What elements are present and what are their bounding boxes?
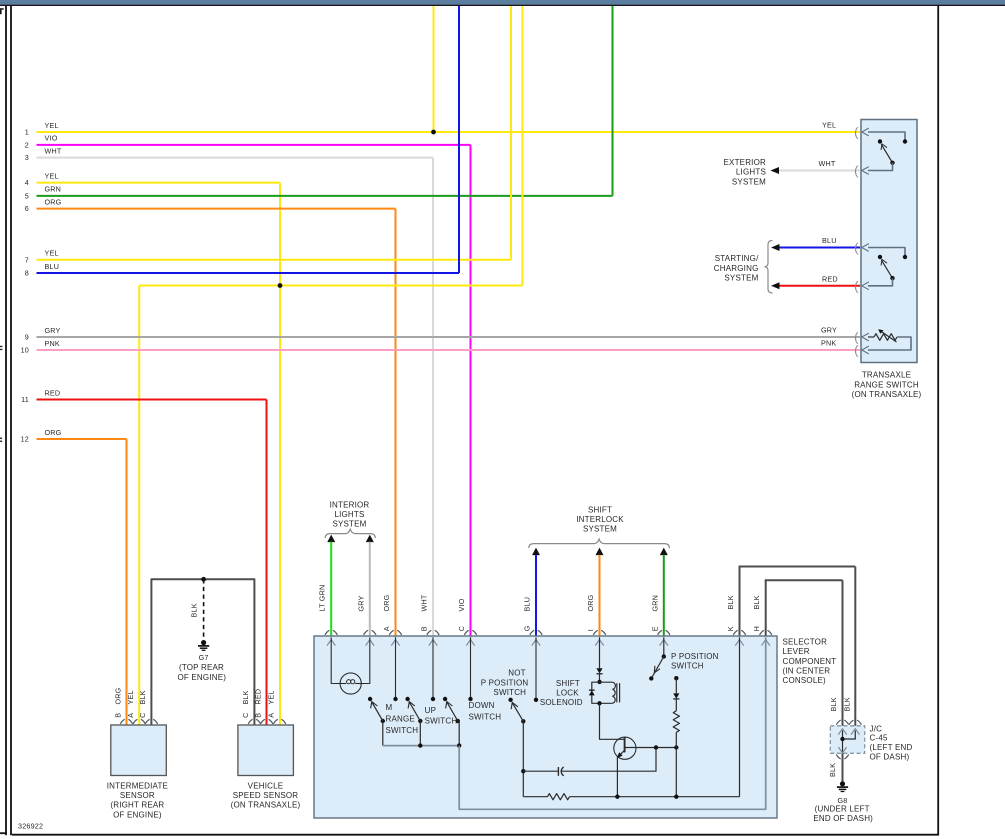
svg-text:LT GRN: LT GRN <box>318 585 327 612</box>
svg-text:B: B <box>254 713 263 718</box>
svg-text:PNK: PNK <box>821 339 836 348</box>
svg-text:(: ( <box>854 240 859 255</box>
svg-text:OF ENGINE): OF ENGINE) <box>177 673 226 682</box>
svg-text:(: ( <box>854 163 859 178</box>
svg-text:SYSTEM: SYSTEM <box>583 525 617 534</box>
svg-text:A: A <box>382 626 391 631</box>
svg-text:ORG: ORG <box>113 687 122 704</box>
svg-text:GRY: GRY <box>821 326 837 335</box>
svg-text:VIO: VIO <box>45 134 58 143</box>
svg-text:SYSTEM: SYSTEM <box>724 274 758 283</box>
svg-text:ORG: ORG <box>45 197 62 206</box>
svg-text:GRY: GRY <box>45 326 61 335</box>
svg-text:YEL: YEL <box>45 121 59 130</box>
svg-text:C: C <box>241 712 250 717</box>
svg-text:BLK: BLK <box>138 690 147 704</box>
svg-text:BLK: BLK <box>190 603 199 617</box>
svg-text:A: A <box>126 713 135 718</box>
svg-text:BLU: BLU <box>523 597 532 612</box>
svg-text:10: 10 <box>21 346 29 355</box>
svg-text:BLK: BLK <box>828 763 837 777</box>
svg-text:VIO: VIO <box>457 598 466 611</box>
svg-text:11: 11 <box>21 395 29 404</box>
svg-text:INTERMEDIATE: INTERMEDIATE <box>107 781 168 790</box>
svg-text:SELECTOR: SELECTOR <box>783 637 828 646</box>
svg-text:K: K <box>726 626 735 631</box>
svg-text:M: M <box>386 703 393 712</box>
svg-text:12: 12 <box>21 435 29 444</box>
svg-text:4: 4 <box>25 178 29 187</box>
svg-text:I: I <box>586 629 595 631</box>
svg-text:ORG: ORG <box>45 428 62 437</box>
svg-text:BLK: BLK <box>842 697 851 711</box>
svg-text:SWITCH: SWITCH <box>671 662 704 671</box>
svg-text:3: 3 <box>25 153 29 162</box>
svg-text:(ON TRANSAXLE): (ON TRANSAXLE) <box>852 390 922 399</box>
svg-text:9: 9 <box>25 333 29 342</box>
svg-text:SPEED SENSOR: SPEED SENSOR <box>233 791 299 800</box>
svg-text:2: 2 <box>25 141 29 150</box>
svg-text:WHT: WHT <box>819 159 836 168</box>
svg-text:B: B <box>420 626 429 631</box>
svg-text:6: 6 <box>25 204 29 213</box>
svg-text:RED: RED <box>45 388 61 397</box>
svg-text:SWITCH: SWITCH <box>386 726 419 735</box>
svg-text:END OF DASH): END OF DASH) <box>813 814 873 823</box>
svg-text:BLK: BLK <box>726 595 735 609</box>
svg-text:NOT: NOT <box>508 668 526 677</box>
svg-text:YEL: YEL <box>45 249 59 258</box>
svg-text:SHIFT: SHIFT <box>556 679 580 688</box>
svg-text:C-45: C-45 <box>870 734 888 743</box>
svg-text:STARTING/: STARTING/ <box>715 254 759 263</box>
svg-text:OF DASH): OF DASH) <box>870 752 910 761</box>
svg-text:INTERIOR: INTERIOR <box>330 500 370 509</box>
svg-text:(TOP REAR: (TOP REAR <box>179 663 224 672</box>
svg-text:EXTERIOR: EXTERIOR <box>724 158 767 167</box>
svg-text:5: 5 <box>25 192 29 201</box>
svg-text:(RIGHT REAR: (RIGHT REAR <box>110 801 164 810</box>
svg-text:BLK: BLK <box>241 690 250 704</box>
svg-text:CONSOLE): CONSOLE) <box>783 676 827 685</box>
svg-text:ORG: ORG <box>382 594 391 611</box>
svg-text:G: G <box>523 625 532 631</box>
svg-text:(UNDER LEFT: (UNDER LEFT <box>815 805 870 814</box>
svg-text:COMPONENT: COMPONENT <box>783 657 837 666</box>
svg-text:RANGE: RANGE <box>386 714 415 723</box>
svg-text:WHT: WHT <box>420 594 429 611</box>
svg-text:YEL: YEL <box>45 171 59 180</box>
svg-text:A: A <box>266 713 275 718</box>
svg-text:YEL: YEL <box>126 690 135 704</box>
svg-text:LIGHTS: LIGHTS <box>736 168 766 177</box>
svg-text:SENSOR: SENSOR <box>120 791 155 800</box>
svg-text:ORG: ORG <box>586 594 595 611</box>
svg-text:(: ( <box>854 125 859 140</box>
svg-text:BLU: BLU <box>45 262 60 271</box>
svg-text:(IN CENTER: (IN CENTER <box>783 667 831 676</box>
svg-text:DOWN: DOWN <box>469 701 495 710</box>
svg-text:VEHICLE: VEHICLE <box>248 781 284 790</box>
svg-text:SWITCH: SWITCH <box>469 713 502 722</box>
svg-text:RANGE SWITCH: RANGE SWITCH <box>854 380 919 389</box>
svg-text:GRN: GRN <box>650 595 659 612</box>
svg-text:SOLENOID: SOLENOID <box>540 698 583 707</box>
svg-text:UP: UP <box>425 706 437 715</box>
svg-text:GRN: GRN <box>45 185 62 194</box>
svg-text:G7: G7 <box>199 653 209 662</box>
svg-text:SHIFT: SHIFT <box>588 505 612 514</box>
svg-text:B: B <box>113 713 122 718</box>
svg-text:RED: RED <box>822 275 838 284</box>
svg-text:(ON TRANSAXLE): (ON TRANSAXLE) <box>231 801 301 810</box>
svg-text:SWITCH: SWITCH <box>425 716 458 725</box>
svg-text:CHARGING: CHARGING <box>714 264 759 273</box>
svg-text:LOCK: LOCK <box>556 689 579 698</box>
svg-text:SYSTEM: SYSTEM <box>332 520 366 529</box>
svg-text:8: 8 <box>25 269 29 278</box>
svg-text:C: C <box>457 626 466 631</box>
svg-text:TRANSAXLE: TRANSAXLE <box>862 371 911 380</box>
svg-text:(: ( <box>854 343 859 358</box>
svg-text:326922: 326922 <box>18 821 43 830</box>
svg-text:YEL: YEL <box>822 121 836 130</box>
svg-text:SWITCH: SWITCH <box>493 688 526 697</box>
svg-text:H: H <box>752 626 761 631</box>
svg-text:YEL: YEL <box>266 690 275 704</box>
svg-text:P POSITION: P POSITION <box>671 652 719 661</box>
svg-text:PNK: PNK <box>45 339 60 348</box>
svg-text:WHT: WHT <box>45 146 62 155</box>
svg-text:(: ( <box>854 278 859 293</box>
svg-text:7: 7 <box>25 255 29 264</box>
svg-text:LIGHTS: LIGHTS <box>334 510 364 519</box>
svg-text:LEVER: LEVER <box>783 647 810 656</box>
svg-text:C: C <box>138 712 147 717</box>
svg-text:BLU: BLU <box>822 236 837 245</box>
svg-text:J/C: J/C <box>870 724 883 733</box>
svg-text:BLK: BLK <box>829 697 838 711</box>
svg-text:(LEFT END: (LEFT END <box>870 743 913 752</box>
svg-text:RED: RED <box>254 689 263 705</box>
svg-text:SYSTEM: SYSTEM <box>732 177 766 186</box>
svg-text:G8: G8 <box>838 796 848 805</box>
svg-text:P POSITION: P POSITION <box>481 678 529 687</box>
svg-text:GRY: GRY <box>356 595 365 611</box>
svg-text:INTERLOCK: INTERLOCK <box>576 515 624 524</box>
svg-text:E: E <box>650 626 659 631</box>
svg-text:OF ENGINE): OF ENGINE) <box>113 810 162 819</box>
svg-text:BLK: BLK <box>752 595 761 609</box>
svg-text:1: 1 <box>25 128 29 137</box>
